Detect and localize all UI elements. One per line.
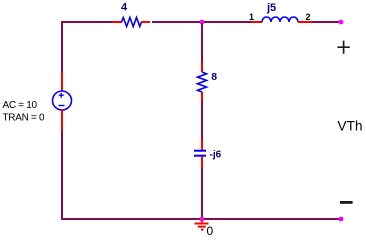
svg-text:0: 0	[207, 224, 214, 238]
inductor L1 body (value j5)	[262, 17, 298, 22]
ground symbol bar 1	[195, 223, 209, 225]
wire top middle horizontal	[152, 21, 252, 23]
svg-text:j5: j5	[266, 2, 276, 14]
svg-text:-j6: -j6	[210, 150, 222, 161]
resistor R2 body (value 8)	[198, 72, 207, 92]
ground symbol bar 2	[198, 226, 206, 228]
svg-text:VTh: VTh	[338, 118, 363, 133]
annotation plus sign (VTh positive terminal)	[338, 41, 350, 54]
annotation minus sign (VTh negative terminal)	[340, 201, 353, 204]
resistor R2 pin stub top	[201, 62, 203, 72]
source V1 pin stub bottom	[61, 109, 63, 130]
node open terminal dot bottom-right	[339, 217, 344, 222]
capacitor C1 pin stub top	[201, 138, 203, 150]
ground symbol stem	[201, 220, 203, 223]
svg-text:AC = 10: AC = 10	[3, 100, 38, 111]
svg-text:4: 4	[121, 1, 128, 13]
capacitor C1 pin stub bottom	[201, 157, 203, 168]
node junction dot bottom middle	[200, 217, 205, 222]
svg-text:8: 8	[211, 71, 217, 83]
wire top-right horizontal	[312, 21, 341, 23]
resistor R2 pin stub bottom	[201, 92, 203, 102]
ground symbol bar 3	[201, 229, 203, 231]
svg-text:2: 2	[306, 12, 311, 22]
resistor R1 pin stub right	[141, 21, 150, 23]
svg-text:TRAN = 0: TRAN = 0	[3, 113, 46, 124]
capacitor C1 top plate	[194, 150, 206, 152]
node open terminal dot top-right	[339, 20, 344, 25]
source V1 body circle	[53, 91, 72, 110]
wire bottom horizontal	[61, 218, 341, 220]
source V1 minus mark	[59, 105, 65, 107]
inductor L1 pin 1 stub	[252, 21, 262, 23]
capacitor C1 bottom plate	[194, 155, 206, 157]
svg-text:1: 1	[249, 12, 254, 22]
resistor R1 body (value 4)	[122, 18, 142, 27]
source V1 plus mark	[59, 93, 64, 98]
inductor L1 pin 2 stub	[298, 21, 312, 23]
node junction dot top middle	[200, 20, 205, 25]
wire left vertical upper	[61, 21, 63, 72]
wire left vertical lower	[61, 130, 63, 220]
wire top-left horizontal	[61, 21, 112, 23]
wire middle vertical upper	[201, 23, 203, 62]
wire middle vertical lower	[201, 168, 203, 219]
resistor R1 pin stub left	[112, 21, 122, 23]
wire middle vertical between R2 and C1	[201, 102, 203, 138]
source V1 pin stub top	[61, 72, 63, 92]
